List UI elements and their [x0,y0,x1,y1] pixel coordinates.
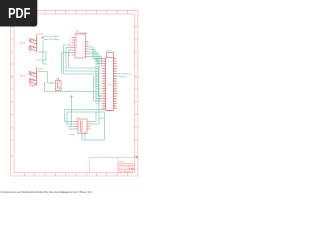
svg-text:RLY1: RLY1 [20,42,26,44]
svg-text:7: 7 [83,56,84,58]
svg-text:39: 39 [103,106,105,108]
svg-text:TITLE:: TITLE: [119,162,125,164]
svg-text:A: A [11,100,13,104]
svg-text:B: B [11,75,13,79]
svg-text:Date: Sheet: 1/1: Date: Sheet: 1/1 [119,170,134,173]
svg-text:POWER-ON: POWER-ON [120,74,133,76]
svg-text:DIGITAAL1: DIGITAAL1 [49,35,61,38]
svg-text:A: A [135,100,137,104]
svg-text:C:\Documents and Settings\Gebr: C:\Documents and Settings\Gebruiker\My D… [0,190,92,194]
svg-text:RLY2: RLY2 [20,75,26,77]
svg-text:8: 8 [69,55,70,57]
svg-text:PDF: PDF [8,6,30,22]
svg-text:DIGITAAL2: DIGITAAL2 [49,38,61,41]
svg-text:+12V: +12V [38,69,44,71]
svg-text:RESET: RESET [120,77,128,79]
svg-text:B: B [135,75,137,79]
svg-text:REV:: REV: [130,168,135,170]
svg-text:CONTROLER BLK: CONTROLER BLK [119,165,137,167]
svg-text:VSS: VSS [95,103,100,105]
svg-text:+12V: +12V [38,34,44,36]
svg-text:PIC16F84AP: PIC16F84AP [76,32,89,35]
svg-text:GND: GND [99,118,104,120]
svg-text:40: 40 [114,106,116,108]
